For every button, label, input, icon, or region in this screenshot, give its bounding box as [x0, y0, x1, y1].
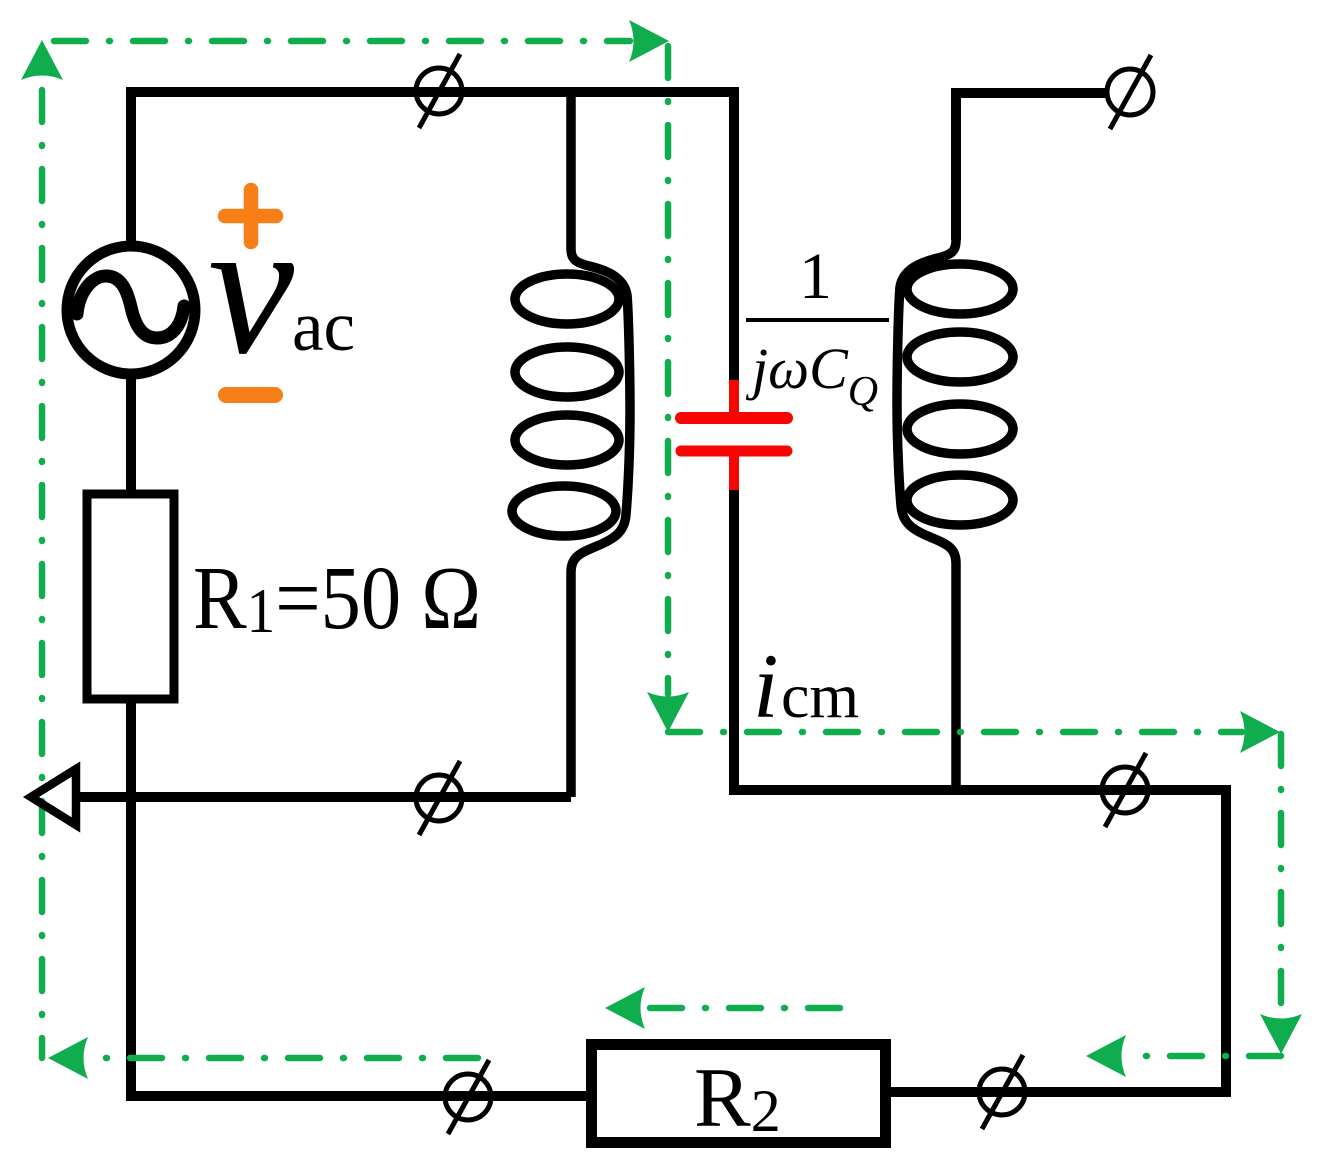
- svg-text:ac: ac: [292, 288, 355, 366]
- inductor L1 loop4: [512, 486, 616, 536]
- inductor L2 right coil connector: [897, 93, 956, 790]
- node arrow left white fill: [31, 769, 76, 825]
- inductor L1 loop2: [515, 347, 619, 397]
- wire right-coil top to terminal: [956, 93, 1107, 240]
- cm path mid vertical (green): [665, 46, 672, 694]
- port P3 mid-left: [416, 761, 462, 835]
- cm path bottom-right horizontal (green): [1130, 1053, 1281, 1060]
- cm path arrowhead left at bottom-left: [48, 1037, 88, 1079]
- svg-text:i: i: [753, 635, 779, 737]
- port P4 mid-right: [1102, 753, 1148, 827]
- port P1 top-left (circle-slash): [416, 54, 462, 128]
- capacitor CQ top plate (red): [681, 412, 787, 424]
- inductor L2 loop2: [907, 332, 1013, 382]
- node arrow left (open triangle): [31, 769, 76, 825]
- inductor L2 loop3: [907, 404, 1013, 454]
- cm path right vertical (green): [1278, 734, 1285, 1016]
- cm path arrowhead left near R2 right: [1086, 1035, 1126, 1077]
- wire capacitor down, mid-right horizontal, right vertical, into R2: [734, 485, 1226, 1092]
- wire mid-left horizontal: [70, 792, 571, 802]
- svg-text:v: v: [208, 179, 295, 394]
- wire AC source to R1: [126, 372, 136, 494]
- wire stub into arrow: [72, 792, 90, 802]
- inductor L1 loop1: [515, 274, 619, 324]
- inductor L2 loop1: [907, 264, 1013, 314]
- wire R1 to bottom-left corner: [126, 699, 136, 1096]
- wire bottom-left to R2: [126, 1091, 591, 1101]
- AC source V_ac circle: [67, 246, 195, 374]
- svg-text:cm: cm: [781, 660, 859, 731]
- port P2 top-right terminal: [1107, 55, 1153, 129]
- cm path arrowhead left above R2: [605, 987, 645, 1029]
- wire top horizontal with AC-source branch and capacitor branch: [131, 92, 734, 385]
- inductor L2 loop4: [907, 475, 1013, 525]
- cm path arrowhead down at bottom-right: [1260, 1014, 1302, 1054]
- cm path arrowhead right at mid-right: [1240, 711, 1280, 753]
- cm path arrowhead up at top-left: [21, 40, 63, 80]
- port P6 bottom-right: [979, 1055, 1025, 1129]
- cm path above-R2 horizontal (green): [648, 1005, 840, 1012]
- resistor R1: [87, 494, 174, 699]
- capacitor CQ bottom lead (red): [729, 451, 739, 490]
- resistor R2: [592, 1045, 886, 1143]
- inductor L1 left coil connector: [571, 92, 630, 797]
- port P5 bottom-left: [445, 1060, 491, 1134]
- cm path mid horizontal (green): [668, 729, 1242, 736]
- capacitor CQ bottom plate (red): [681, 446, 787, 457]
- cm path arrowhead down at mid: [647, 692, 689, 732]
- inductor L1 loop3: [515, 415, 619, 465]
- svg-text:jωCQ: jωCQ: [745, 336, 878, 415]
- cm path arrowhead right at top-middle: [629, 20, 669, 62]
- cm path left vertical (green): [39, 82, 46, 1058]
- svg-text:1: 1: [799, 240, 832, 313]
- capacitor CQ top lead (red): [729, 380, 739, 413]
- label 1/jwCQ fraction bar: [746, 318, 889, 322]
- svg-text:R1=50 Ω: R1=50 Ω: [193, 549, 481, 648]
- polarity minus (orange): [226, 387, 275, 403]
- polarity plus (orange): [225, 190, 276, 242]
- cm path bottom-left horizontal (green): [92, 1055, 478, 1062]
- AC source sine wave: [77, 276, 184, 338]
- cm path top horizontal (green): [54, 38, 630, 45]
